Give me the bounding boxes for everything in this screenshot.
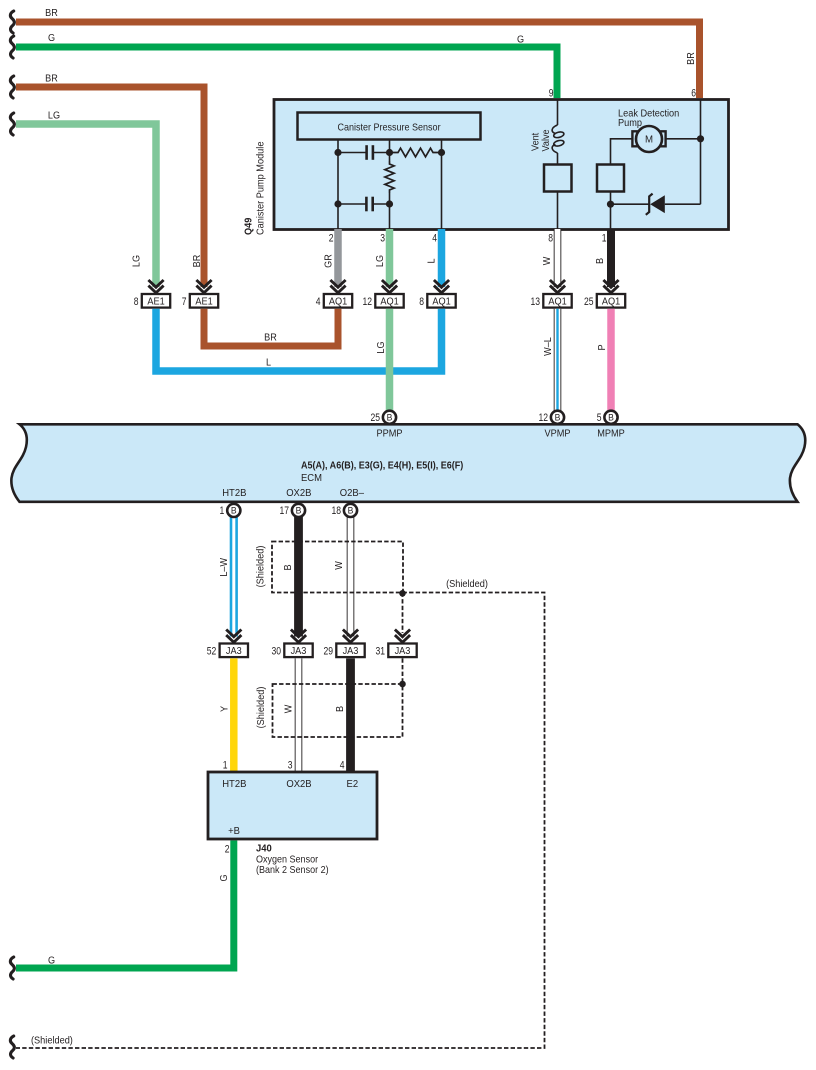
connector 7 AE1 (AE1 pin 7) <box>182 280 218 308</box>
cut mark shielded <box>10 1036 14 1058</box>
connector 25 AQ1 (AQ1 pin 25) <box>584 280 625 308</box>
svg-text:31: 31 <box>375 646 385 658</box>
svg-text:BR: BR <box>686 52 697 65</box>
svg-text:BR: BR <box>264 332 277 343</box>
svg-text:4: 4 <box>340 760 345 772</box>
svg-text:Pump: Pump <box>618 117 642 128</box>
svg-text:29: 29 <box>323 646 333 658</box>
svg-text:JA3: JA3 <box>343 646 359 657</box>
svg-text:6: 6 <box>691 88 696 100</box>
wire LG pin 3 <box>386 229 394 287</box>
svg-text:W: W <box>283 705 294 714</box>
wire B JA3-29 to J40 E2 <box>346 658 355 772</box>
svg-text:30: 30 <box>271 646 281 658</box>
wire BR AE1-7 to AQ1-4 <box>204 309 338 346</box>
wire G J40 +B to left <box>16 841 234 969</box>
ECM pin 12 (B) VPMP <box>538 411 564 424</box>
connector 8 AE1 (AE1 pin 8) <box>134 280 170 308</box>
svg-text:MPMP: MPMP <box>597 428 625 439</box>
svg-text:12: 12 <box>362 296 372 308</box>
svg-text:Valve: Valve <box>541 129 552 151</box>
internal wire pin3 line <box>389 140 391 162</box>
svg-text:Canister Pressure Sensor: Canister Pressure Sensor <box>337 121 440 132</box>
ECM pin 18 (B) O2B- <box>331 504 357 517</box>
svg-text:B: B <box>595 258 606 264</box>
resistor R1 horizontal <box>390 148 442 157</box>
svg-text:25: 25 <box>584 296 594 308</box>
wire P AQ1-25 to ECM MPMP <box>607 309 615 416</box>
svg-text:3: 3 <box>288 760 293 772</box>
svg-text:LG: LG <box>131 255 142 267</box>
svg-text:1: 1 <box>602 233 607 245</box>
svg-text:18: 18 <box>331 505 341 517</box>
svg-text:JA3: JA3 <box>226 646 242 657</box>
svg-text:B: B <box>334 706 345 712</box>
svg-text:B: B <box>231 505 237 515</box>
svg-text:ECM: ECM <box>301 473 322 484</box>
internal wire pin 6 <box>700 100 702 205</box>
cut mark BR top <box>10 11 14 33</box>
wire B pin 1 <box>607 229 615 287</box>
wire LG to connector AE1-8 <box>16 124 156 287</box>
svg-text:B: B <box>387 412 393 422</box>
svg-text:+B: +B <box>228 826 240 837</box>
cut mark BR 2 <box>10 76 14 98</box>
svg-text:O2B–: O2B– <box>340 488 365 499</box>
svg-text:9: 9 <box>549 88 554 100</box>
svg-text:A5(A), A6(B), E3(G), E4(H), E5: A5(A), A6(B), E3(G), E4(H), E5(I), E6(F) <box>301 459 463 470</box>
vent valve solenoid box <box>557 153 559 165</box>
svg-text:8: 8 <box>548 233 553 245</box>
svg-text:JA3: JA3 <box>395 646 411 657</box>
svg-text:M: M <box>645 134 653 145</box>
shield wire to JA3-31 <box>402 593 404 634</box>
shield box 1 (Shielded) <box>272 542 403 593</box>
junction dot shield 1 <box>399 590 406 597</box>
svg-text:PPMP: PPMP <box>376 428 402 439</box>
wire G to pin 9 <box>16 47 557 98</box>
svg-text:B: B <box>296 505 302 515</box>
svg-text:2: 2 <box>329 233 334 245</box>
motor M leak detection pump <box>632 126 665 152</box>
module Q49 Canister Pump Module box <box>274 100 729 230</box>
shield box 2 (Shielded) <box>273 684 403 737</box>
svg-text:BR: BR <box>45 73 58 84</box>
svg-text:VPMP: VPMP <box>544 428 570 439</box>
svg-text:Y: Y <box>219 705 230 712</box>
wire Y JA3-52 to J40 HT2B <box>230 658 238 772</box>
svg-text:1: 1 <box>220 505 225 517</box>
ECM pin 17 (B) OX2B <box>279 504 305 517</box>
svg-text:G: G <box>48 955 55 966</box>
svg-text:G: G <box>48 33 55 44</box>
svg-text:AQ1: AQ1 <box>380 296 398 307</box>
wire L-W ECM HT2B to JA3-52 <box>230 505 238 637</box>
wire L AE1-8 to AQ1-8 <box>156 309 442 371</box>
svg-text:L: L <box>426 258 437 263</box>
svg-text:G: G <box>517 34 524 45</box>
component J40 Oxygen Sensor box <box>208 772 377 839</box>
svg-text:E2: E2 <box>347 779 359 790</box>
svg-text:B: B <box>555 412 561 422</box>
svg-text:(Shielded): (Shielded) <box>446 579 488 590</box>
connector 52 JA3 (JA3 pin 52) <box>207 630 248 658</box>
svg-text:B: B <box>348 505 354 515</box>
svg-text:AQ1: AQ1 <box>602 296 620 307</box>
junction dot diode left <box>607 201 614 208</box>
junction dots sensor network <box>334 149 341 156</box>
wire L pin 4 <box>438 229 446 287</box>
svg-text:(Shielded): (Shielded) <box>256 687 267 729</box>
junction dot motor right <box>697 135 704 142</box>
svg-text:AQ1: AQ1 <box>432 296 450 307</box>
vent valve wire top <box>557 100 559 126</box>
svg-text:W: W <box>542 257 553 266</box>
connector 8 AQ1 (AQ1 pin 8) <box>419 280 455 308</box>
svg-text:AQ1: AQ1 <box>548 296 566 307</box>
svg-text:12: 12 <box>538 412 548 424</box>
svg-text:OX2B: OX2B <box>286 779 312 790</box>
cut mark LG <box>10 113 14 135</box>
wire driver to pin 1 <box>610 192 612 230</box>
svg-text:8: 8 <box>134 296 139 308</box>
connector 29 JA3 (JA3 pin 29) <box>323 630 364 658</box>
cut mark G top <box>10 36 14 58</box>
wire BR to connector AE1-7 <box>16 87 204 287</box>
svg-text:AQ1: AQ1 <box>329 296 347 307</box>
connector 4 AQ1 (AQ1 pin 4) <box>316 280 352 308</box>
connector 12 AQ1 (AQ1 pin 12) <box>362 280 403 308</box>
vent valve wire to pin 8 <box>557 192 559 230</box>
svg-text:52: 52 <box>207 646 217 658</box>
svg-text:8: 8 <box>419 296 424 308</box>
svg-text:AE1: AE1 <box>147 296 164 307</box>
wire motor right lead <box>666 138 701 140</box>
svg-text:5: 5 <box>597 412 602 424</box>
pump driver box <box>597 165 624 192</box>
shield drain wire right/down/left <box>16 593 545 1049</box>
zener diode D1 <box>611 194 701 215</box>
Canister Pressure Sensor box <box>298 113 481 140</box>
connector 13 AQ1 (AQ1 pin 13) <box>530 280 571 308</box>
internal wire pin4 line <box>441 140 443 230</box>
svg-text:JA3: JA3 <box>291 646 307 657</box>
svg-text:1: 1 <box>223 760 228 772</box>
cut mark G bottom <box>10 957 14 979</box>
svg-text:W–L: W–L <box>543 337 554 356</box>
svg-text:13: 13 <box>530 296 540 308</box>
wire GR pin 2 <box>334 229 342 287</box>
wire BR battery to pin 6 <box>16 22 700 98</box>
svg-text:25: 25 <box>370 412 380 424</box>
vent valve coil <box>552 125 564 153</box>
wire W-L AQ1-13 to ECM VPMP <box>554 309 562 416</box>
resistor R2 vertical <box>385 161 394 193</box>
svg-text:(Bank 2 Sensor 2): (Bank 2 Sensor 2) <box>256 864 329 875</box>
ECM pin 5 (B) MPMP <box>597 411 618 424</box>
ECM pin 1 (B) HT2B <box>220 504 241 517</box>
capacitor C1 <box>338 145 390 160</box>
svg-text:(Shielded): (Shielded) <box>31 1035 73 1046</box>
wire LG AQ1-12 to ECM PPMP <box>386 309 394 416</box>
svg-text:HT2B: HT2B <box>222 488 247 499</box>
svg-text:LG: LG <box>375 255 386 267</box>
svg-text:17: 17 <box>279 505 289 517</box>
svg-text:(Shielded): (Shielded) <box>255 546 266 588</box>
svg-text:OX2B: OX2B <box>286 488 312 499</box>
svg-text:BR: BR <box>45 8 58 19</box>
junction dot shield 2 <box>399 681 406 688</box>
capacitor C2 <box>338 197 390 212</box>
svg-text:7: 7 <box>182 296 187 308</box>
svg-text:AE1: AE1 <box>195 296 212 307</box>
svg-text:W: W <box>334 561 345 570</box>
wire W JA3-30 to J40 OX2B <box>295 658 303 772</box>
svg-text:2: 2 <box>225 844 230 856</box>
svg-text:4: 4 <box>432 233 437 245</box>
svg-text:3: 3 <box>380 233 385 245</box>
svg-text:Canister Pump Module: Canister Pump Module <box>255 142 266 235</box>
ECM pin 25 (B) PPMP <box>370 411 396 424</box>
svg-text:BR: BR <box>192 255 203 268</box>
svg-text:G: G <box>219 874 230 881</box>
svg-text:B: B <box>608 412 614 422</box>
svg-text:LG: LG <box>376 341 387 353</box>
svg-text:HT2B: HT2B <box>222 779 247 790</box>
svg-text:LG: LG <box>48 110 60 121</box>
svg-text:4: 4 <box>316 296 321 308</box>
label J40 Oxygen Sensor <box>256 843 329 875</box>
connector 31 JA3 (JA3 pin 31) <box>375 630 416 658</box>
svg-text:Q49: Q49 <box>243 218 254 235</box>
svg-text:GR: GR <box>323 254 334 268</box>
wire W pin 8 <box>554 229 562 287</box>
shield wire JA3-31 to box 2 <box>402 658 404 684</box>
internal wire pin2 line <box>337 140 339 230</box>
connector 30 JA3 (JA3 pin 30) <box>271 630 312 658</box>
svg-text:B: B <box>283 564 294 570</box>
wire W ECM O2B to JA3-29 <box>347 505 355 637</box>
svg-text:P: P <box>597 344 608 350</box>
wire B ECM OX2B to JA3-30 <box>294 505 303 637</box>
wire motor left lead <box>611 139 633 165</box>
svg-text:L–W: L–W <box>219 558 230 577</box>
ECM band <box>11 424 805 502</box>
svg-text:L: L <box>266 357 271 368</box>
